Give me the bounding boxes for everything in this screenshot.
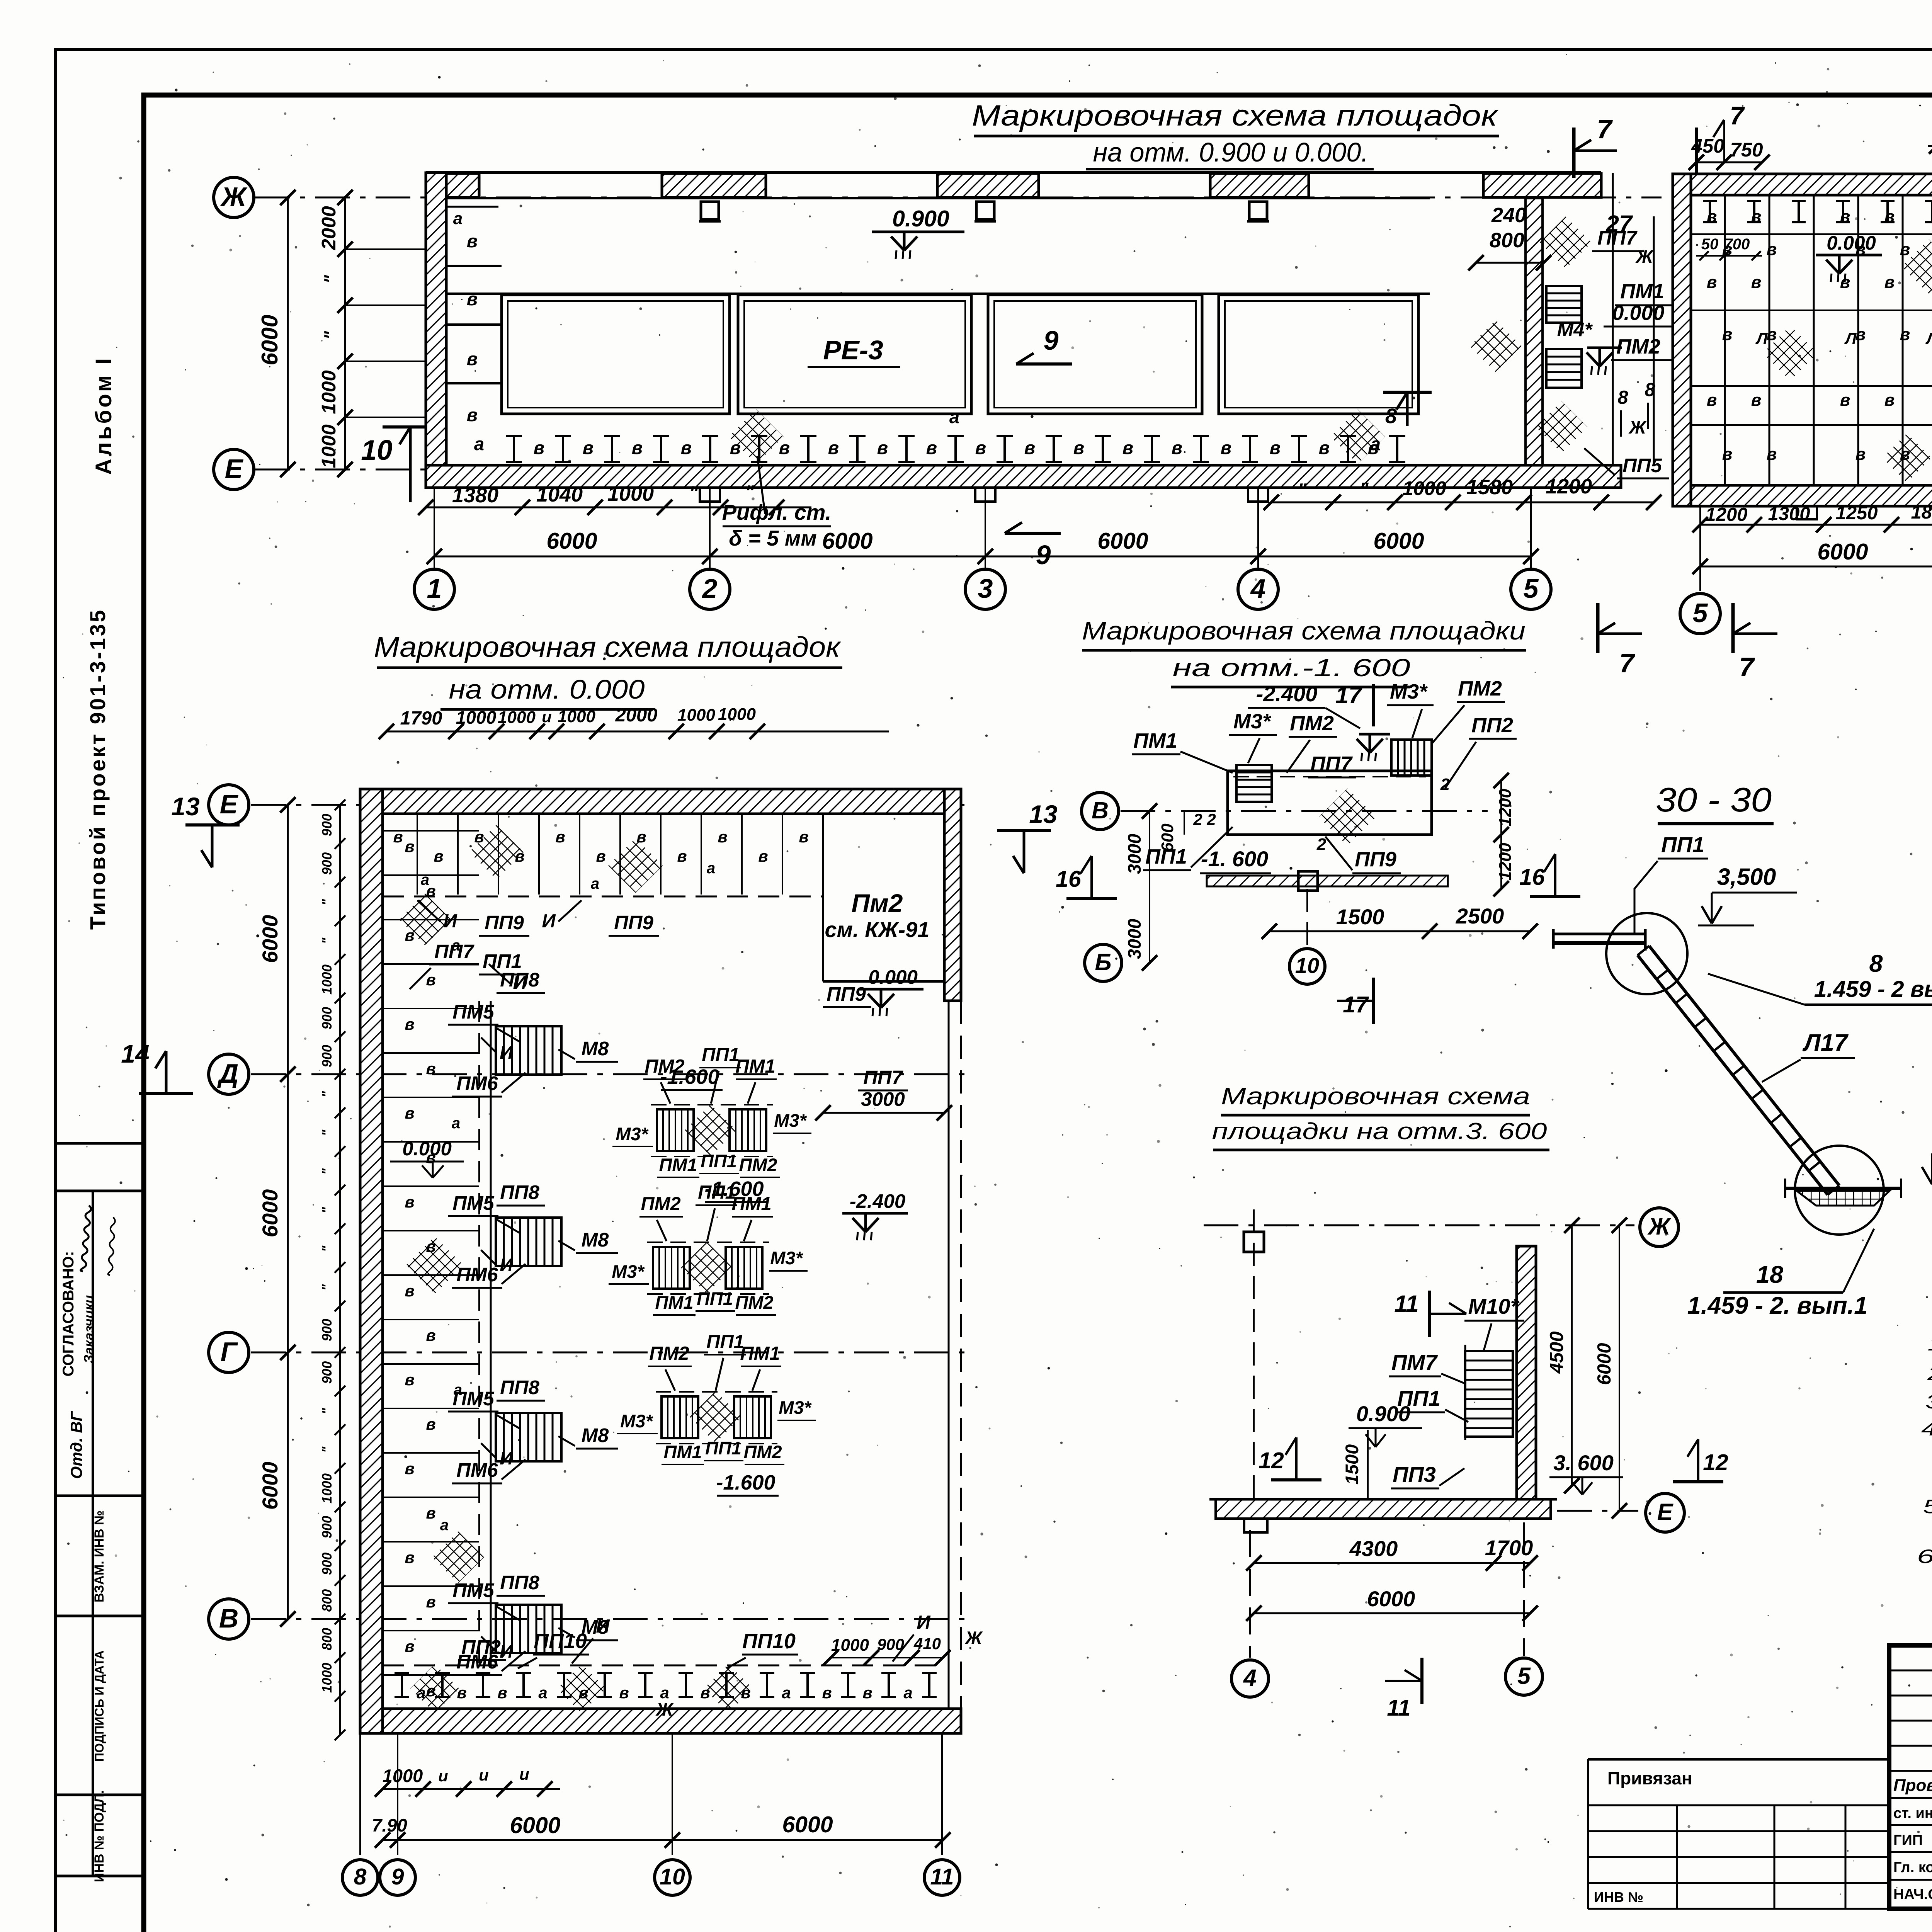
right stair plan16 bbox=[1391, 740, 1432, 776]
level 0.000 small plan2 left bbox=[1816, 254, 1882, 257]
svg-text:": " bbox=[1359, 479, 1369, 500]
svg-text:16: 16 bbox=[1056, 866, 1082, 892]
svg-text:ПП8: ПП8 bbox=[500, 969, 539, 991]
svg-text:12: 12 bbox=[1259, 1448, 1284, 1473]
section mark 13 left bbox=[185, 823, 240, 827]
svg-text:6000: 6000 bbox=[258, 1462, 282, 1510]
stair zone right end plan1 bbox=[1526, 198, 1543, 465]
upper shelf line plan1 bbox=[446, 293, 1430, 295]
svg-text:1000: 1000 bbox=[320, 964, 335, 995]
axis circle G bbox=[209, 1332, 249, 1372]
section mark 7 bottom plan1 bbox=[1596, 603, 1600, 653]
svg-text:3000: 3000 bbox=[861, 1088, 905, 1110]
svg-text:6000: 6000 bbox=[1594, 1343, 1615, 1385]
small dims right bottom big plan bbox=[831, 1657, 943, 1658]
svg-text:в: в bbox=[1840, 207, 1850, 226]
svg-text:М3*: М3* bbox=[1233, 710, 1272, 733]
svg-text:а: а bbox=[452, 1115, 460, 1132]
ladder diagonal sec3030 bbox=[1649, 946, 1839, 1185]
bottom dims plan36 bbox=[1254, 1562, 1530, 1564]
mark 17 bottom plan16 bbox=[1372, 978, 1375, 1024]
svg-text:11: 11 bbox=[1394, 1291, 1418, 1317]
svg-text:ПМ2: ПМ2 bbox=[1290, 712, 1334, 735]
bottom wall plan1 bbox=[426, 465, 1621, 488]
svg-text:Б: Б bbox=[1095, 949, 1111, 975]
svg-text:М3*: М3* bbox=[770, 1248, 803, 1268]
svg-text:ПП1: ПП1 bbox=[1145, 845, 1187, 868]
svg-text:ПП2: ПП2 bbox=[1471, 714, 1513, 737]
svg-text:Е: Е bbox=[220, 789, 239, 819]
top wall band plan1 bbox=[426, 171, 1601, 174]
svg-text:ВЗАМ. ИНВ №: ВЗАМ. ИНВ № bbox=[92, 1510, 107, 1602]
svg-text:ПМ2: ПМ2 bbox=[1458, 677, 1502, 700]
svg-text:900: 900 bbox=[320, 813, 335, 836]
svg-text:ПП8: ПП8 bbox=[500, 1571, 539, 1594]
svg-text:в: в bbox=[426, 1326, 435, 1344]
svg-text:ПП10: ПП10 bbox=[534, 1629, 587, 1653]
svg-text:": " bbox=[320, 1168, 335, 1175]
svg-text:Альбом I: Альбом I bbox=[91, 356, 116, 475]
svg-text:ПП5: ПП5 bbox=[1622, 454, 1662, 476]
svg-text:Пров.: Пров. bbox=[1893, 1776, 1932, 1795]
axis circle V bbox=[209, 1599, 249, 1639]
svg-text:1. Таблицу сечений смотри: 1. Таблицу сечений смотри КЖ- 86 bbox=[1927, 1333, 1932, 1355]
svg-text:В: В bbox=[219, 1603, 239, 1633]
svg-text:1000: 1000 bbox=[318, 370, 340, 414]
svg-text:6000: 6000 bbox=[1367, 1587, 1415, 1611]
svg-text:10: 10 bbox=[361, 435, 392, 466]
svg-text:Заказчики: Заказчики bbox=[82, 1295, 97, 1364]
svg-text:в: в bbox=[405, 1459, 414, 1478]
vertical dim chain small big plan bbox=[339, 805, 341, 1735]
svg-text:в: в bbox=[1751, 391, 1762, 410]
svg-text:1800: 1800 bbox=[1911, 502, 1932, 523]
svg-text:и: и bbox=[542, 707, 552, 726]
svg-text:СОГЛАСОВАНО:: СОГЛАСОВАНО: bbox=[60, 1251, 77, 1377]
svg-text:2000: 2000 bbox=[615, 705, 657, 726]
svg-text:в: в bbox=[1855, 445, 1866, 464]
svg-text:в: в bbox=[779, 437, 790, 458]
svg-text:и: и bbox=[479, 1766, 489, 1784]
main dim row 6000 plan1 bbox=[434, 556, 1531, 558]
svg-text:900: 900 bbox=[320, 1552, 335, 1575]
svg-text:в: в bbox=[1707, 273, 1717, 292]
svg-text:1000: 1000 bbox=[318, 424, 340, 468]
top interior band big plan bbox=[383, 896, 823, 898]
mesh patches plan2 bbox=[1901, 239, 1932, 294]
svg-text:900: 900 bbox=[877, 1635, 904, 1653]
svg-text:3000: 3000 bbox=[1124, 834, 1145, 874]
svg-text:1.459 - 2. вып.1: 1.459 - 2. вып.1 bbox=[1687, 1292, 1868, 1319]
svg-text:6000: 6000 bbox=[258, 915, 282, 963]
svg-text:в: в bbox=[405, 1104, 414, 1122]
mark 16 plan16 bbox=[1066, 897, 1117, 900]
svg-text:М10*: М10* bbox=[1468, 1294, 1520, 1318]
svg-text:а: а bbox=[903, 1684, 912, 1702]
svg-text:1000: 1000 bbox=[498, 708, 536, 727]
svg-text:а: а bbox=[591, 875, 599, 892]
svg-text:ГИП: ГИП bbox=[1893, 1832, 1923, 1849]
svg-text:в: в bbox=[1855, 325, 1866, 344]
svg-text:240: 240 bbox=[1491, 204, 1526, 227]
svg-text:17: 17 bbox=[1335, 682, 1363, 708]
svg-text:0.000: 0.000 bbox=[1827, 232, 1876, 254]
platform outline plan16 bbox=[1228, 771, 1432, 835]
svg-text:в: в bbox=[1751, 273, 1762, 292]
svg-text:1250: 1250 bbox=[1835, 503, 1878, 524]
svg-text:Л17: Л17 bbox=[1802, 1029, 1849, 1056]
section mark 10 left bbox=[383, 425, 439, 429]
svg-text:ПП9: ПП9 bbox=[485, 912, 524, 934]
svg-text:4500: 4500 bbox=[1546, 1331, 1567, 1374]
svg-text:ПП1: ПП1 bbox=[705, 1438, 742, 1458]
wall plan36 bbox=[1517, 1246, 1536, 1505]
svg-text:6000: 6000 bbox=[822, 528, 872, 554]
svg-text:в: в bbox=[497, 1684, 507, 1702]
ladder plan36 bbox=[1465, 1351, 1513, 1437]
svg-text:900: 900 bbox=[320, 1044, 335, 1067]
svg-text:14: 14 bbox=[121, 1039, 149, 1068]
svg-text:2500: 2500 bbox=[1456, 904, 1504, 928]
axis circle J plan36 bbox=[1640, 1208, 1679, 1247]
top dim row big plan bbox=[386, 731, 889, 733]
lower detail circle sec3030 bbox=[1795, 1146, 1884, 1235]
axis drop lines plan2 bbox=[1699, 506, 1701, 591]
svg-text:": " bbox=[320, 331, 341, 340]
left interior beams big plan bbox=[383, 830, 479, 832]
svg-text:в: в bbox=[1707, 391, 1717, 410]
axis circle 1 bbox=[414, 569, 454, 609]
svg-text:в: в bbox=[426, 971, 435, 989]
svg-text:в: в bbox=[1221, 437, 1231, 458]
mark 11 bottom plan36 bbox=[1420, 1658, 1423, 1704]
svg-text:1000: 1000 bbox=[558, 707, 595, 726]
svg-text:в: в bbox=[405, 1282, 414, 1300]
svg-text:и: и bbox=[519, 1765, 529, 1783]
svg-text:1380: 1380 bbox=[452, 484, 498, 507]
svg-text:1000: 1000 bbox=[607, 482, 654, 505]
svg-text:ПП7: ПП7 bbox=[1597, 227, 1638, 249]
svg-text:": " bbox=[320, 1207, 335, 1213]
interior vertical dashed line big plan bbox=[490, 1001, 492, 1665]
svg-text:1000: 1000 bbox=[718, 705, 756, 724]
right dims 1200 plan16 bbox=[1500, 781, 1502, 835]
svg-text:ПП10: ПП10 bbox=[742, 1629, 796, 1653]
svg-text:И: И bbox=[596, 1616, 610, 1637]
svg-text:в: в bbox=[467, 289, 478, 309]
svg-text:Маркировочная схема площадок: Маркировочная схема площадок bbox=[972, 99, 1499, 132]
svg-text:6000: 6000 bbox=[257, 315, 282, 365]
svg-text:0.000: 0.000 bbox=[402, 1138, 452, 1160]
bottom wall plan2 bbox=[1691, 485, 1932, 506]
svg-text:ПМ1: ПМ1 bbox=[1133, 729, 1177, 752]
svg-text:в: в bbox=[1172, 437, 1182, 458]
svg-text:8: 8 bbox=[1617, 387, 1628, 408]
title block outer bbox=[1889, 1645, 1932, 1909]
svg-text:в: в bbox=[677, 847, 687, 865]
svg-text:ПП8: ПП8 bbox=[500, 1181, 539, 1203]
svg-text:800: 800 bbox=[320, 1628, 335, 1650]
axis circle Е bbox=[214, 449, 254, 490]
svg-text:а: а bbox=[452, 937, 460, 954]
svg-text:ПП1: ПП1 bbox=[706, 1332, 744, 1352]
svg-text:ПП2: ПП2 bbox=[461, 1636, 501, 1658]
stair groups big plan bbox=[496, 1026, 561, 1075]
svg-text:площадки на отм.3. 600: площадки на отм.3. 600 bbox=[1212, 1118, 1547, 1144]
svg-text:-2.400: -2.400 bbox=[1256, 682, 1318, 706]
svg-text:ПМ1: ПМ1 bbox=[1620, 280, 1664, 303]
section mark 7 small top bbox=[1695, 128, 1698, 174]
svg-text:700: 700 bbox=[1724, 236, 1750, 253]
svg-text:в: в bbox=[718, 828, 727, 846]
svg-text:в: в bbox=[467, 405, 478, 425]
svg-text:в: в bbox=[1270, 437, 1281, 458]
svg-text:Ж: Ж bbox=[220, 182, 248, 212]
svg-text:в: в bbox=[758, 847, 768, 865]
svg-text:13: 13 bbox=[171, 792, 199, 821]
platform group 1 bbox=[657, 1109, 694, 1151]
mark 16 sec3030 bbox=[1530, 895, 1580, 898]
svg-text:2: 2 bbox=[1193, 810, 1202, 828]
svg-text:4. Все стальные конструкции: 4. Все стальные конструкции после монтаж… bbox=[1921, 1418, 1932, 1440]
title block name rows bbox=[1889, 1797, 1932, 1799]
room PM2 big plan bbox=[822, 814, 824, 981]
svg-text:ПОДПИСЬ И ДАТА: ПОДПИСЬ И ДАТА bbox=[92, 1650, 106, 1762]
svg-text:16: 16 bbox=[1519, 864, 1545, 890]
svg-text:ст. инж: ст. инж bbox=[1893, 1805, 1932, 1821]
svg-text:13: 13 bbox=[1029, 800, 1057, 828]
svg-text:см. КЖ-91: см. КЖ-91 bbox=[825, 917, 930, 942]
mesh patches plan1 bbox=[729, 409, 783, 464]
svg-text:": " bbox=[320, 275, 341, 284]
svg-text:6000: 6000 bbox=[510, 1813, 560, 1838]
svg-text:Пм2: Пм2 bbox=[852, 889, 903, 917]
svg-text:1000: 1000 bbox=[320, 1663, 335, 1693]
svg-text:Ж: Ж bbox=[1647, 1213, 1672, 1240]
svg-text:ПП9: ПП9 bbox=[614, 912, 653, 934]
svg-text:в: в bbox=[632, 437, 643, 458]
svg-text:в: в bbox=[1884, 273, 1895, 292]
svg-text:в: в bbox=[405, 1193, 414, 1211]
axis circle B plan16 bbox=[1085, 944, 1122, 981]
svg-text:в: в bbox=[457, 1684, 466, 1702]
svg-text:750: 750 bbox=[1730, 139, 1763, 161]
svg-text:1000: 1000 bbox=[677, 706, 715, 724]
axis drop lines bottom big plan bbox=[359, 1733, 361, 1855]
svg-text:в: в bbox=[681, 437, 692, 458]
svg-text:ПМ1: ПМ1 bbox=[735, 1056, 775, 1077]
svg-text:Привязан: Привязан bbox=[1607, 1768, 1692, 1788]
axis circle 3 bbox=[965, 569, 1005, 609]
vertical dim 6000 between Ж and Е bbox=[287, 197, 289, 469]
svg-text:": " bbox=[320, 1284, 335, 1291]
svg-text:М3*: М3* bbox=[612, 1261, 645, 1282]
axis circle 4 bbox=[1238, 569, 1278, 609]
axis line Е top plan bbox=[255, 469, 448, 471]
top dims plan2 bbox=[1696, 162, 1762, 163]
svg-text:2000: 2000 bbox=[318, 206, 340, 250]
svg-text:ПМ6: ПМ6 bbox=[456, 1072, 498, 1094]
svg-text:а: а bbox=[440, 1517, 449, 1534]
svg-text:а: а bbox=[707, 860, 715, 877]
svg-text:в: в bbox=[1884, 391, 1895, 410]
svg-text:в: в bbox=[405, 1548, 414, 1566]
column stubs below top wall bbox=[701, 202, 719, 219]
svg-text:М3*: М3* bbox=[1390, 680, 1428, 703]
svg-text:И: И bbox=[542, 911, 556, 932]
svg-text:5: 5 bbox=[1693, 598, 1708, 628]
axis lines big plan bbox=[251, 804, 974, 806]
svg-text:0.000: 0.000 bbox=[868, 966, 918, 988]
svg-text:17: 17 bbox=[1343, 992, 1369, 1017]
svg-text:2: 2 bbox=[1206, 810, 1216, 828]
svg-text:410: 410 bbox=[913, 1634, 941, 1653]
axis circle 10 bbox=[655, 1860, 690, 1895]
svg-text:в: в bbox=[405, 1637, 414, 1655]
svg-text:ПП9: ПП9 bbox=[827, 983, 866, 1005]
dim row plan2 bbox=[1700, 524, 1932, 526]
svg-text:3. Элементы со знаком * укор: 3. Элементы со знаком * укоротить по мес… bbox=[1925, 1391, 1932, 1413]
svg-text:в: в bbox=[1751, 207, 1762, 226]
svg-text:9: 9 bbox=[391, 1864, 404, 1889]
svg-text:ПМ2: ПМ2 bbox=[1616, 335, 1660, 358]
svg-text:Гл. конст: Гл. конст bbox=[1893, 1859, 1932, 1876]
axis drop lines plan1 bbox=[434, 488, 435, 569]
svg-text:1700: 1700 bbox=[1485, 1536, 1533, 1560]
svg-text:в: в bbox=[405, 837, 414, 855]
svg-text:в: в bbox=[1707, 207, 1717, 226]
section mark 7 top plan1 bbox=[1572, 128, 1576, 178]
svg-text:1500: 1500 bbox=[1342, 1444, 1362, 1485]
svg-text:Л: Л bbox=[1844, 329, 1857, 347]
svg-text:-1.600: -1.600 bbox=[716, 1471, 775, 1494]
svg-text:в: в bbox=[828, 437, 839, 458]
svg-text:-1. 600: -1. 600 bbox=[1201, 847, 1268, 871]
svg-text:ПМ2: ПМ2 bbox=[735, 1292, 773, 1313]
svg-text:Ж: Ж bbox=[1635, 246, 1654, 267]
dim 3000 under room bbox=[823, 1112, 944, 1114]
svg-text:ПМ5: ПМ5 bbox=[452, 1192, 494, 1214]
svg-text:6000: 6000 bbox=[258, 1189, 282, 1238]
svg-text:в: в bbox=[1319, 437, 1330, 458]
svg-text:6000: 6000 bbox=[1373, 528, 1424, 554]
svg-text:ПП7: ПП7 bbox=[1310, 752, 1353, 776]
stamp signature squiggle 1 bbox=[81, 1205, 92, 1271]
svg-text:Е: Е bbox=[1657, 1499, 1674, 1525]
svg-text:6000: 6000 bbox=[782, 1812, 833, 1837]
svg-text:ПП3: ПП3 bbox=[1393, 1462, 1436, 1486]
svg-text:ПМ6: ПМ6 bbox=[456, 1264, 498, 1286]
svg-text:М3*: М3* bbox=[620, 1411, 653, 1431]
svg-text:Е: Е bbox=[225, 454, 244, 484]
svg-text:М8: М8 bbox=[582, 1424, 609, 1446]
dims bottom plan16 bbox=[1269, 930, 1530, 932]
svg-text:1790: 1790 bbox=[400, 708, 442, 729]
svg-text:в: в bbox=[1073, 437, 1084, 458]
axis circle 8 bottom bbox=[342, 1860, 378, 1895]
svg-text:1200: 1200 bbox=[1496, 789, 1515, 827]
svg-text:3000: 3000 bbox=[1124, 919, 1145, 959]
svg-text:6000: 6000 bbox=[546, 528, 597, 554]
svg-text:ПМ5: ПМ5 bbox=[452, 1388, 494, 1410]
axis circle 11 bbox=[924, 1860, 960, 1895]
svg-text:ПП8: ПП8 bbox=[500, 1376, 539, 1398]
svg-text:ИНВ №: ИНВ № bbox=[1594, 1889, 1643, 1905]
svg-text:ПМ2: ПМ2 bbox=[649, 1343, 689, 1364]
svg-text:1.459 - 2 вып.1: 1.459 - 2 вып.1 bbox=[1814, 976, 1932, 1002]
svg-text:в: в bbox=[434, 847, 443, 865]
svg-text:1000: 1000 bbox=[831, 1636, 869, 1655]
svg-text:Маркировочная схема площадок: Маркировочная схема площадок bbox=[374, 631, 842, 663]
svg-text:10: 10 bbox=[660, 1864, 685, 1889]
axis circle Ж bbox=[214, 177, 254, 218]
svg-text:900: 900 bbox=[320, 1361, 335, 1384]
bottom beam strip plan16 bbox=[1207, 876, 1448, 886]
svg-text:5: 5 bbox=[1524, 573, 1539, 604]
svg-text:7: 7 bbox=[1619, 648, 1636, 678]
svg-text:на отм. 0.900 и 0.000.: на отм. 0.900 и 0.000. bbox=[1093, 137, 1369, 167]
svg-text:50: 50 bbox=[1701, 236, 1719, 253]
bottom dim rows big plan bbox=[383, 1788, 560, 1790]
svg-text:Л: Л bbox=[1925, 329, 1932, 347]
privyazan extension box bbox=[1588, 1758, 1889, 1761]
svg-text:800: 800 bbox=[320, 1589, 335, 1612]
svg-text:на отм.-1. 600: на отм.-1. 600 bbox=[1173, 654, 1411, 682]
stamp strip boxes left margin bbox=[55, 1142, 144, 1145]
svg-text:в: в bbox=[426, 1060, 435, 1078]
svg-text:в: в bbox=[1024, 437, 1035, 458]
svg-text:": " bbox=[320, 1245, 335, 1252]
svg-text:Отд. ВГ: Отд. ВГ bbox=[67, 1410, 85, 1479]
svg-text:Маркировочная схема площадки: Маркировочная схема площадки bbox=[1082, 616, 1526, 645]
svg-text:М3*: М3* bbox=[616, 1124, 649, 1144]
svg-text:а: а bbox=[949, 406, 959, 427]
svg-text:4: 4 bbox=[1250, 573, 1266, 604]
column top plan36 bbox=[1244, 1232, 1264, 1252]
vertical dim chain 2000/1000 bbox=[344, 197, 346, 469]
svg-text:ПП1: ПП1 bbox=[697, 1288, 733, 1309]
svg-text:": " bbox=[1298, 480, 1307, 501]
svg-text:-1.600: -1.600 bbox=[704, 1177, 764, 1201]
svg-text:": " bbox=[320, 1091, 335, 1097]
svg-text:в: в bbox=[926, 437, 937, 458]
svg-text:М8: М8 bbox=[582, 1229, 609, 1251]
lower platform sec3030 bbox=[1785, 1187, 1901, 1190]
svg-text:9: 9 bbox=[1044, 325, 1059, 355]
svg-text:в: в bbox=[1900, 325, 1910, 344]
svg-text:в: в bbox=[1900, 240, 1910, 259]
svg-text:2. Разрезы смотри КЖ- 79 ÷: 2. Разрезы смотри КЖ- 79 ÷ 82 . bbox=[1927, 1363, 1932, 1384]
svg-text:в: в bbox=[405, 1371, 414, 1389]
svg-text:а: а bbox=[782, 1684, 791, 1702]
axis circle 5 plan36 bbox=[1505, 1658, 1543, 1695]
svg-text:в: в bbox=[555, 828, 565, 846]
svg-text:ПМ6: ПМ6 bbox=[456, 1459, 498, 1481]
mesh patch plan16 bbox=[1319, 788, 1376, 845]
svg-text:8: 8 bbox=[354, 1864, 367, 1889]
svg-text:И: И bbox=[500, 1042, 513, 1063]
svg-text:ПМ2: ПМ2 bbox=[641, 1194, 680, 1214]
section mark 9 middle bbox=[1016, 362, 1072, 366]
svg-text:Л: Л bbox=[1755, 329, 1768, 347]
axis circle E2 bbox=[209, 785, 249, 825]
upper detail circle sec3030 bbox=[1606, 913, 1687, 994]
dim 3000 column plan16 bbox=[1149, 811, 1150, 963]
svg-text:-2.400: -2.400 bbox=[850, 1190, 906, 1212]
svg-text:3,500: 3,500 bbox=[1717, 864, 1776, 890]
svg-text:в: в bbox=[583, 437, 594, 458]
svg-text:в: в bbox=[405, 1015, 414, 1033]
